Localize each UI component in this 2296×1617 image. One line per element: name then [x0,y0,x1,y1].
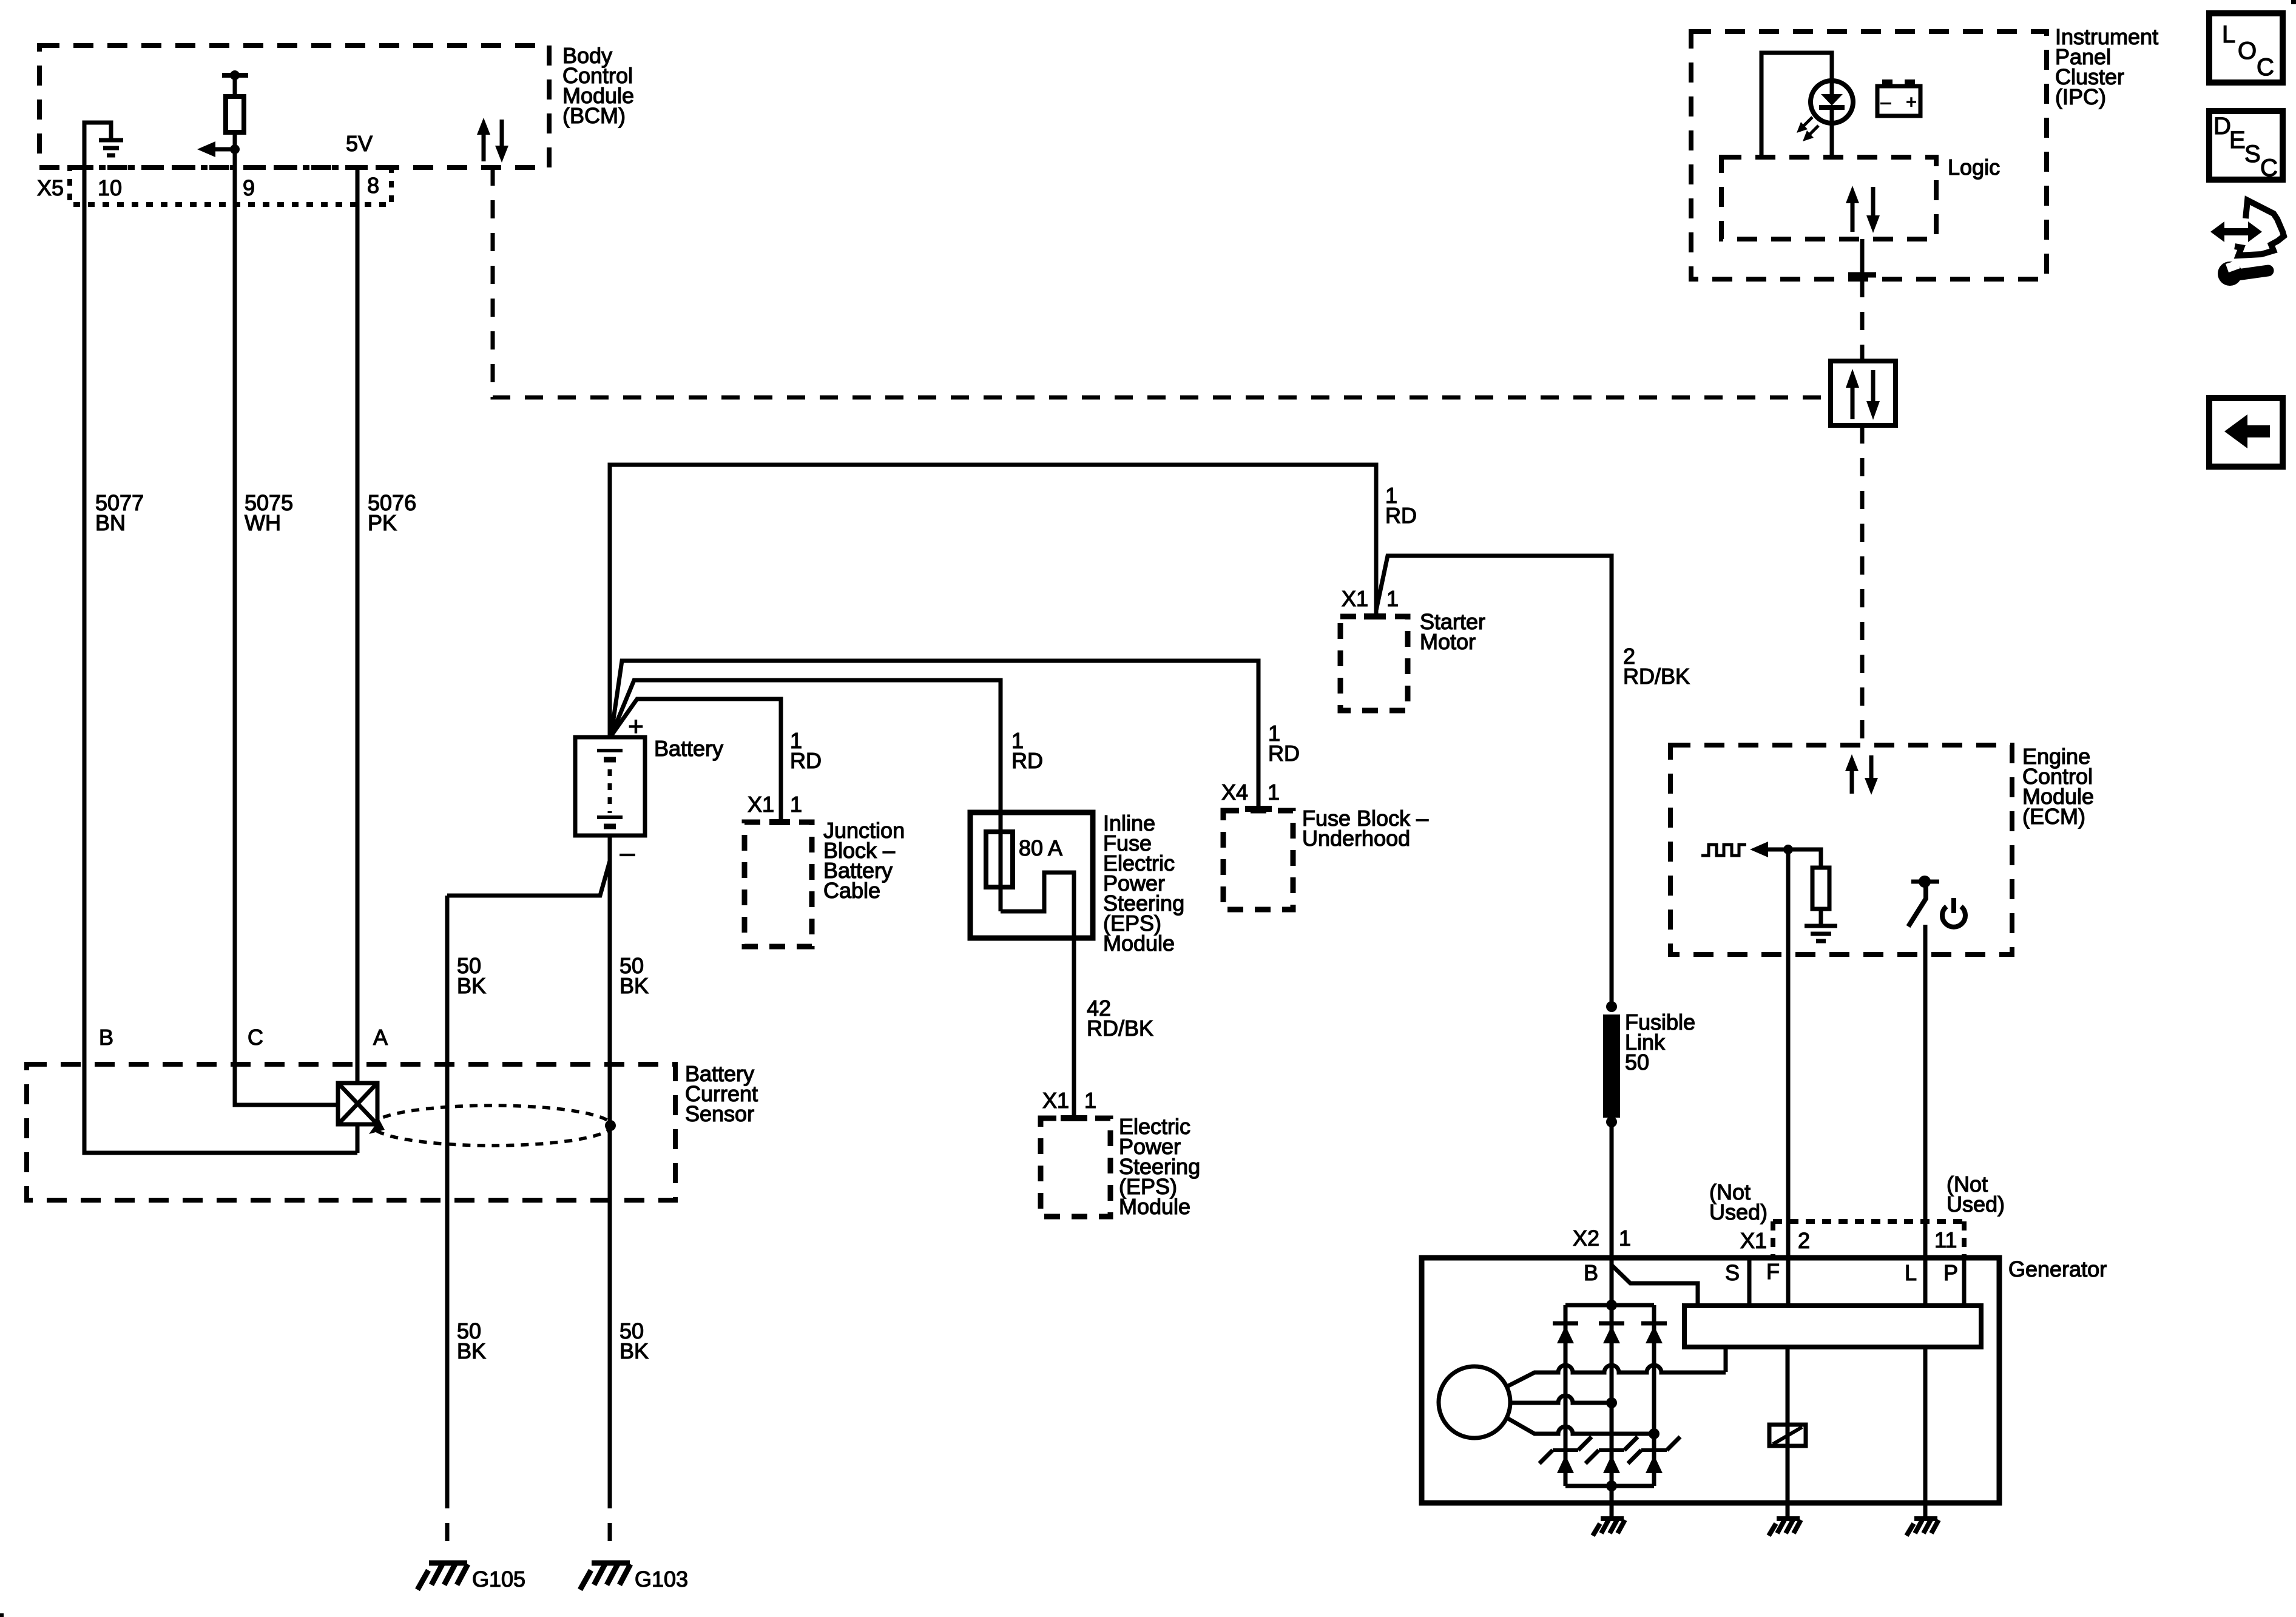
wire branch to junction block [611,699,781,820]
zener diode 3 [1628,1437,1680,1473]
wire battery negative to G103 [608,836,612,1490]
zener diode 1 [1539,1437,1592,1473]
svg-text:E: E [2229,127,2246,154]
wire branch to X4 fuse block [611,661,1258,809]
svg-text:BK: BK [620,1338,649,1363]
generator box [1422,1258,1999,1503]
svg-text:1: 1 [1386,586,1399,611]
resistor (BCM pull-up) [226,96,244,132]
node below fusible link [1606,1116,1617,1127]
svg-text:RD: RD [1268,741,1300,766]
svg-text:(IPC): (IPC) [2055,84,2106,109]
node junction dot pin9 [230,144,240,154]
top diode 1 [1553,1323,1578,1343]
svg-text:5V: 5V [346,131,373,156]
svg-text:L: L [1905,1260,1917,1285]
wire branch to generator (2 RD/BK) [1376,556,1612,1007]
sense ellipse (dashed) [373,1106,612,1146]
connector box X1 Starter Motor [1340,616,1408,711]
wire pin9 up to resistor [233,132,237,167]
svg-text:Sensor: Sensor [685,1101,754,1126]
DESC icon box [2209,111,2283,180]
top diode 3 [1641,1323,1667,1343]
wire pin10 to internal ground [84,123,111,167]
indicator LED (charge lamp) [1811,81,1853,123]
top diode 2 [1599,1323,1624,1343]
wire fuse output (Z path) to EPS connector [1001,873,1074,1118]
svg-text:X1: X1 [748,792,774,817]
svg-text:BK: BK [457,1338,486,1363]
bridge column 3 [1652,1305,1656,1486]
battery cells [597,749,623,752]
svg-text:+: + [1906,92,1917,112]
wire F driver down to generator regulator [1786,849,1791,1306]
phase line 3 [1506,1417,1654,1434]
bidirectional serial arrows in ECM [1845,754,1878,795]
svg-text:Module: Module [1103,931,1175,956]
svg-text:WH: WH [245,510,281,535]
battery box [575,737,645,836]
wire P stub [1962,1258,1967,1306]
svg-text:RD/BK: RD/BK [1087,1016,1153,1041]
svg-text:BN: BN [95,510,126,535]
LOC icon box [2209,13,2283,83]
wire branch to EPS inline fuse [611,680,1001,911]
svg-text:Used): Used) [1709,1200,1768,1224]
svg-text:+: + [628,712,644,741]
wire resistor top to B+ bar [233,75,237,96]
svg-text:D: D [2213,113,2231,140]
signal arrow (to BCM logic) [214,147,235,152]
wire serial data (dashed) from BCM to gateway [493,167,1831,397]
svg-text:RD: RD [1385,503,1417,528]
ground G103 [580,1563,630,1590]
switch (L line driver) top bar [1911,880,1939,884]
svg-text:BK: BK [620,973,649,998]
fusible link 50 [1603,1014,1620,1118]
wire S stub [1747,1258,1752,1306]
svg-text:C: C [2260,155,2278,181]
ground (signal ground inside BCM) [99,140,123,155]
wire B terminal into bridge [1610,1258,1614,1305]
svg-text:Battery: Battery [654,736,723,761]
svg-text:RD/BK: RD/BK [1623,664,1690,689]
LED emission arrows [1797,117,1818,141]
sensor element (X box) [338,1083,377,1124]
svg-text:O: O [2238,38,2257,64]
module box BCM (Body Control Module) [39,46,549,167]
connector pin bar X1 starter [1364,613,1386,619]
svg-text:A: A [373,1025,388,1050]
svg-text:Cable: Cable [823,878,880,903]
svg-text:RD: RD [790,748,822,773]
arrowhead of sense ellipse [369,1119,385,1134]
power icon [1942,906,1965,927]
connector pin bar X4 [1245,806,1272,812]
svg-text:C: C [2257,54,2274,81]
EPS inline fuse module box [970,812,1093,938]
svg-text:P: P [1943,1260,1958,1285]
rotor winding circle [1439,1366,1510,1438]
connector box EPS module [1041,1118,1110,1217]
wire F below regulator to ground [1786,1347,1790,1519]
svg-text:G103: G103 [635,1567,688,1592]
ground (generator F) [1769,1519,1801,1536]
svg-text:8: 8 [367,173,379,198]
zener diode 2 [1585,1437,1638,1473]
diode bridge top bus [1565,1303,1654,1308]
svg-text:–: – [620,838,635,868]
svg-text:S: S [2244,141,2261,167]
bridge column 1 [1564,1305,1568,1486]
svg-text:B: B [1584,1260,1598,1285]
module box ECM (Engine Control Module) [1670,745,2012,954]
node junction on G103 wire [605,1120,616,1131]
wire battery positive riser [610,465,1376,737]
module box Battery Current Sensor [27,1064,675,1200]
node B+ bar [222,73,248,78]
svg-text:C: C [248,1025,263,1050]
wire L below regulator to ground [1923,1347,1928,1519]
svg-text:X1: X1 [1740,1228,1767,1253]
connector X5 box [70,167,391,204]
svg-text:Motor: Motor [1420,629,1476,654]
connector pin bar X1 junction block [769,819,790,825]
ground (generator case) [1593,1519,1625,1536]
phase line 1 [1506,1365,1726,1387]
svg-text:(BCM): (BCM) [562,103,626,128]
wire 5077 BN (pin10 to sensor B) [84,167,357,1153]
connector box X1 Junction Block [745,822,812,947]
wire 5075 WH (pin9 to sensor C) [235,167,338,1105]
regulator sense wire to phase [1724,1347,1728,1372]
phase line 2 [1510,1396,1612,1403]
svg-text:X1: X1 [1042,1088,1069,1113]
connector box X4 Fuse Block Underhood [1223,811,1293,910]
wire fusible link to generator B [1610,1122,1614,1258]
fuse 80A [986,832,1013,887]
svg-text:B: B [99,1025,113,1050]
bridge column 2 [1610,1305,1614,1486]
back arrow icon box [2209,398,2283,467]
diode bridge bottom bus [1565,1484,1654,1488]
svg-text:1: 1 [1268,780,1280,805]
module box IPC (Instrument Panel Cluster) [1691,32,2047,279]
ground G105 [417,1563,468,1590]
svg-text:L: L [2222,21,2235,48]
wire X box to B wire [356,1124,360,1153]
wire B branch to regulator [1612,1265,1698,1306]
ground (generator L) [1906,1519,1939,1536]
svg-text:Generator: Generator [2008,1257,2107,1281]
field coil box on F line [1769,1425,1806,1446]
wire pin8 5V [356,167,360,1083]
wire serial (dashed) IPC to gateway box [1860,279,1865,361]
svg-text:X1: X1 [1342,586,1368,611]
svg-text:G105: G105 [472,1567,525,1592]
node above fusible link [1606,1001,1617,1012]
svg-text:10: 10 [98,175,122,200]
signal arrow to PWM [1767,848,1788,852]
artifact dot bottom left [0,1613,4,1617]
svg-text:PK: PK [368,510,397,535]
wire indicator loop [1761,53,1832,157]
bidirectional serial arrows in BCM [477,118,508,163]
connector pin bar X1 EPS module [1061,1115,1087,1121]
wire bridge to case ground [1610,1486,1614,1519]
PWM signal symbol [1701,845,1746,856]
svg-text:1: 1 [790,792,802,817]
svg-text:9: 9 [243,175,255,200]
IPC pin bar [1848,272,1876,278]
resistor (ECM field sense) [1812,868,1829,909]
wire L driver down to generator regulator [1923,925,1928,1306]
svg-text:X2: X2 [1573,1226,1599,1251]
svg-text:–: – [1881,92,1891,112]
bidirectional serial arrows in gateway [1846,369,1880,420]
svg-text:11: 11 [1934,1227,1957,1252]
svg-text:X4: X4 [1221,780,1248,805]
svg-text:Underhood: Underhood [1302,826,1410,851]
connector X1 not-used dashed outline [1773,1221,1964,1256]
svg-text:1: 1 [1619,1226,1631,1251]
svg-text:BK: BK [457,973,486,998]
svg-text:RD: RD [1011,748,1043,773]
svg-text:1: 1 [1084,1088,1096,1113]
svg-text:Used): Used) [1947,1192,2005,1217]
switch blade [1908,884,1926,927]
svg-text:50: 50 [1625,1050,1649,1075]
wire junction to resistor [1788,849,1821,868]
wire battery negative branch to G105 [447,861,610,896]
svg-text:S: S [1725,1260,1740,1285]
svg-text:F: F [1766,1259,1780,1284]
svg-text:80 A: 80 A [1019,836,1062,860]
svg-text:2: 2 [1798,1228,1810,1253]
serial gateway box [1831,361,1896,425]
svg-text:(ECM): (ECM) [2022,804,2085,829]
bidirectional serial arrows in Logic [1846,186,1880,233]
logic box (dashed) [1721,157,1936,239]
svg-text:Logic: Logic [1948,155,2000,180]
node F-driver junction [1783,845,1793,854]
adjust icon (hand with wrench) [2210,200,2284,286]
voltage regulator box [1684,1306,1981,1347]
wire resistor to ground [1819,909,1823,926]
svg-text:Module: Module [1119,1194,1190,1219]
artifact dot top right [2291,0,2296,4]
wire logic to IPC pin [1860,239,1865,279]
battery symbol icon [1877,86,1920,116]
wire serial (dashed) gateway to ECM [1860,425,1865,745]
svg-text:X5: X5 [37,175,64,200]
ground (signal ground inside ECM) [1805,926,1837,941]
